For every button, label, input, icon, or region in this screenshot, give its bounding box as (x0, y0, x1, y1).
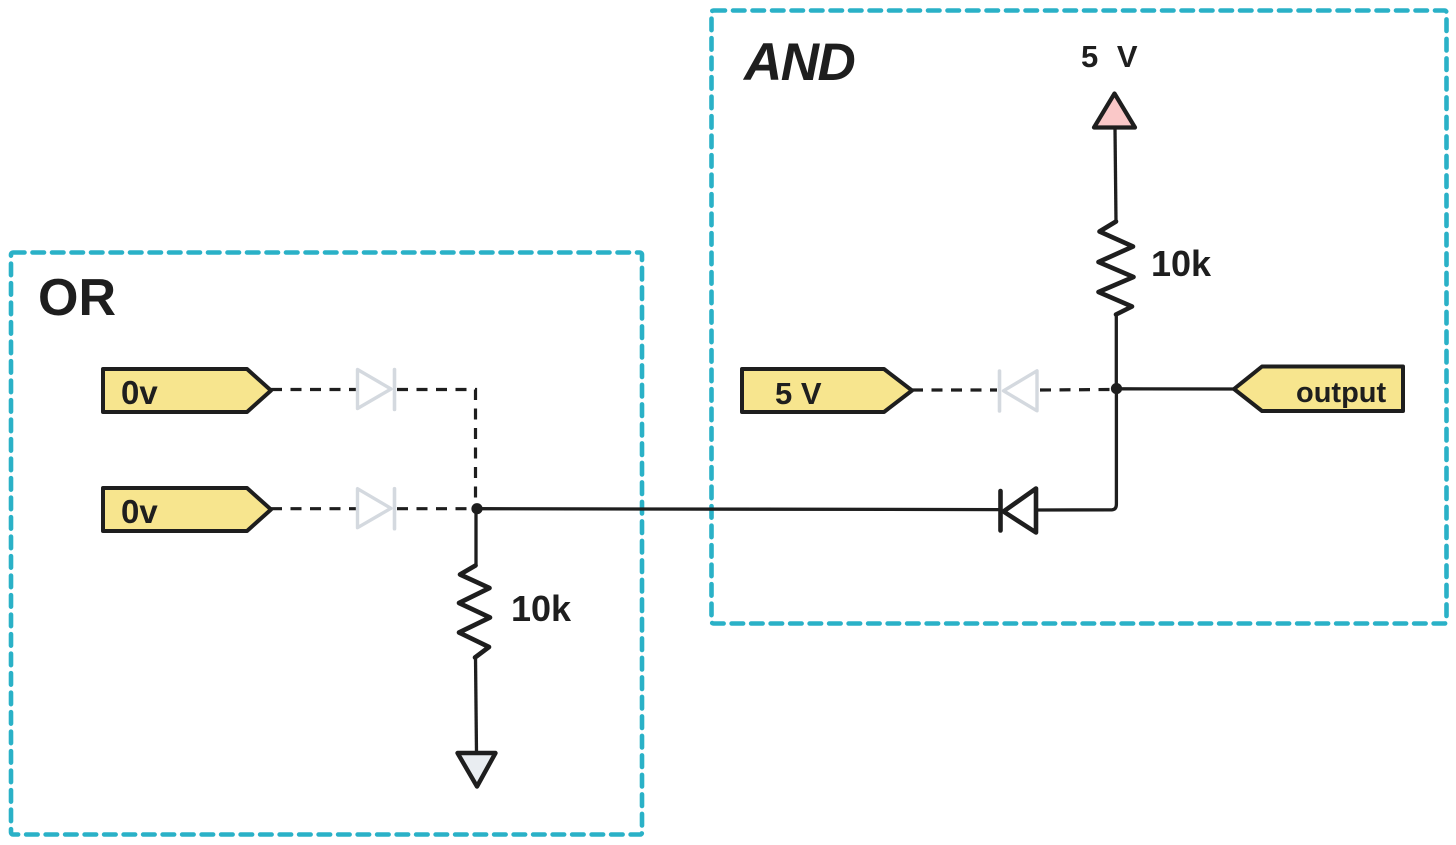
wire diode D4 to AND node (dashed) (1040, 388, 1110, 392)
wire resistor R1 to ground (476, 657, 477, 753)
wire OR node to diode D3 (477, 507, 999, 511)
svg-text:AND: AND (742, 33, 855, 92)
wire diode D3 to AND node (up) (1036, 392, 1116, 510)
diode D1 (grey) (358, 370, 395, 410)
AND node junction (1111, 383, 1122, 394)
svg-text:10k: 10k (1151, 243, 1212, 284)
resistor R2 (1099, 222, 1134, 315)
svg-text:5 V: 5 V (775, 376, 822, 411)
diode D2 (grey) (358, 489, 395, 529)
wire OR node down to resistor R1 (474, 509, 477, 566)
wire resistor R2 to AND node (1115, 314, 1118, 385)
resistor R1 (459, 566, 490, 658)
wire diode D2 to OR node (dashed) (397, 507, 471, 510)
AND gate group box (712, 11, 1447, 624)
wire input C to diode D4 (dashed) (912, 388, 997, 391)
power supply symbol (5V) (1094, 94, 1135, 128)
diode D4 (grey, pointing left) (1000, 371, 1038, 411)
diode D3 (black, pointing left) (1001, 489, 1037, 533)
svg-text:0v: 0v (121, 374, 158, 411)
wire AND node to output label (1117, 387, 1234, 391)
wire supply to resistor R2 (1115, 128, 1116, 222)
svg-text:output: output (1296, 377, 1387, 409)
ground symbol (458, 753, 496, 787)
OR node junction (471, 503, 482, 514)
wire input B to diode D2 (dashed) (271, 507, 356, 510)
svg-text:10k: 10k (511, 588, 572, 629)
wire diode D1 to OR node (dashed, right then down) (397, 390, 476, 503)
input label B (0v) (103, 488, 271, 531)
output label (1234, 367, 1403, 412)
input label C (5 V) (742, 369, 912, 412)
svg-text:OR: OR (38, 269, 116, 327)
svg-text:0v: 0v (121, 493, 158, 530)
input label A (0v) (103, 369, 271, 412)
OR gate group box (11, 253, 642, 835)
svg-text:5 V: 5 V (1081, 39, 1143, 74)
wire input A to diode D1 (dashed) (271, 388, 356, 391)
